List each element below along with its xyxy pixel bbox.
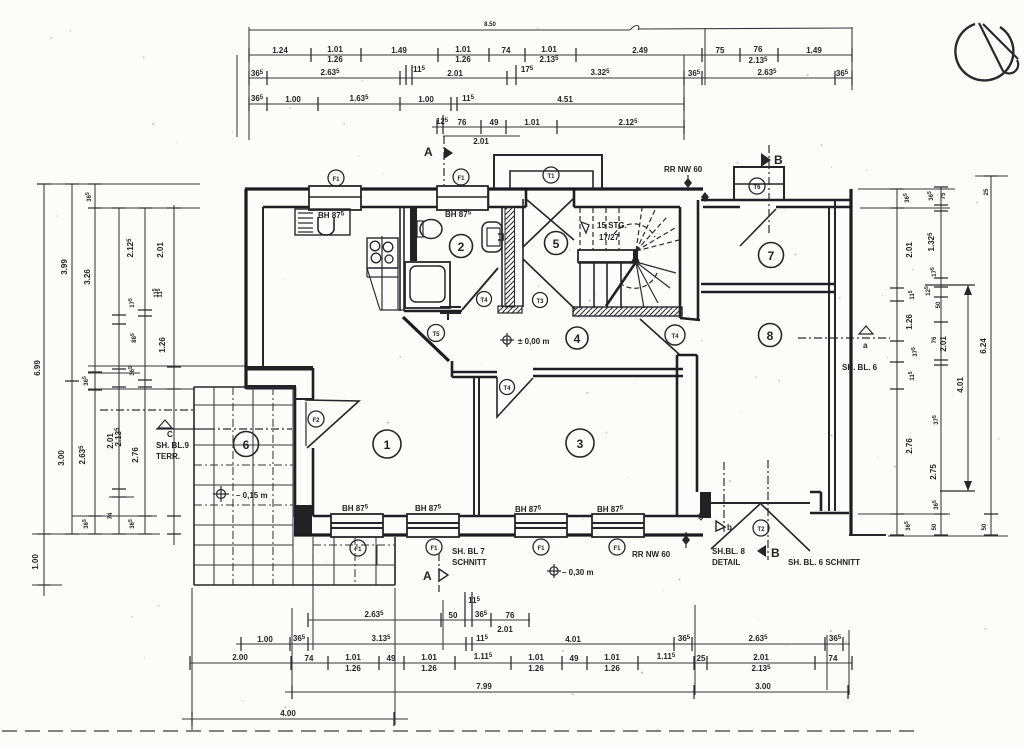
svg-text:3: 3 <box>577 437 584 451</box>
dim row J <box>285 682 850 699</box>
north arrow <box>955 23 1018 80</box>
left chain extension <box>152 205 181 545</box>
wall rooms 1/3 <box>474 378 479 516</box>
door T1 leaf <box>526 199 574 240</box>
svg-text:RR NW 60: RR NW 60 <box>664 165 703 174</box>
dim row D line <box>249 94 684 111</box>
svg-text:25: 25 <box>697 654 706 663</box>
svg-text:15 STG.: 15 STG. <box>597 221 627 230</box>
svg-text:4.01: 4.01 <box>956 377 965 393</box>
hall south wall right segment <box>533 369 683 376</box>
svg-text:SH. BL. 6: SH. BL. 6 <box>842 363 878 372</box>
room 4 <box>566 327 588 349</box>
hall south wall left segment <box>452 361 497 377</box>
entry door T2 leaves <box>711 504 810 551</box>
room 6 <box>234 432 259 457</box>
svg-text:2.00: 2.00 <box>232 653 248 662</box>
svg-text:1.01: 1.01 <box>421 653 437 662</box>
svg-text:3.26: 3.26 <box>83 269 92 285</box>
sink unit <box>295 209 350 235</box>
svg-text:7.99: 7.99 <box>476 682 492 691</box>
svg-text:1: 1 <box>384 438 391 452</box>
room 1 <box>373 430 401 458</box>
room 8 <box>759 324 782 347</box>
svg-text:T3: T3 <box>536 299 544 305</box>
svg-text:2.01: 2.01 <box>753 653 769 662</box>
window F1 top 1 <box>309 186 361 210</box>
toilet <box>417 220 442 239</box>
entry door T2 threshold <box>711 502 810 504</box>
svg-text:a: a <box>863 341 868 350</box>
svg-text:1.49: 1.49 <box>806 46 822 55</box>
bottom dashed ground line <box>2 730 920 732</box>
svg-text:1.01: 1.01 <box>327 45 343 54</box>
svg-text:BH 875: BH 875 <box>415 504 442 513</box>
svg-text:1.00: 1.00 <box>257 635 273 644</box>
svg-text:2.75: 2.75 <box>929 464 938 480</box>
svg-text:F1: F1 <box>430 546 438 552</box>
stove <box>367 238 398 268</box>
svg-text:5: 5 <box>553 237 560 251</box>
section marker A top <box>424 136 453 185</box>
svg-text:2.01: 2.01 <box>939 336 948 352</box>
svg-text:4.00: 4.00 <box>280 709 296 718</box>
left chain 3.99/3.00 <box>57 184 79 534</box>
bath south wall piece <box>440 307 461 320</box>
wall jog verticals F2 <box>295 368 313 517</box>
svg-text:TERR.: TERR. <box>156 452 180 461</box>
svg-text:25: 25 <box>984 188 990 195</box>
section marker B bottom <box>757 460 780 560</box>
door T4 hall-room8 leaf <box>640 319 680 355</box>
stair run diagonal <box>606 262 636 306</box>
svg-text:1.26: 1.26 <box>604 664 620 673</box>
svg-text:75: 75 <box>941 192 947 199</box>
bath floor bottom <box>404 310 462 313</box>
room8 west wall <box>677 355 697 516</box>
SW corner post <box>294 505 312 535</box>
marker RR NW 60 bottom <box>632 512 704 559</box>
svg-text:1.01: 1.01 <box>345 653 361 662</box>
svg-text:SH. BL.9: SH. BL.9 <box>156 441 189 450</box>
right chain 2 <box>924 187 948 535</box>
door T1 wall pieces <box>488 190 574 207</box>
svg-text:RR NW 60: RR NW 60 <box>632 550 671 559</box>
window F1 bottom 4 <box>592 514 644 537</box>
marker RR NW 60 top <box>664 165 709 202</box>
svg-text:2.01: 2.01 <box>447 69 463 78</box>
right 4.01 arrow line <box>925 285 975 491</box>
svg-text:1.01: 1.01 <box>524 118 540 127</box>
bottom exterior wall outer <box>294 533 703 536</box>
svg-text:BH 875: BH 875 <box>318 211 345 220</box>
window F1 top 2 <box>437 186 488 210</box>
section marker B top <box>761 145 783 235</box>
svg-text:76: 76 <box>458 118 467 127</box>
svg-text:1.01: 1.01 <box>604 653 620 662</box>
east inner wall <box>829 200 835 511</box>
svg-text:T5: T5 <box>432 332 440 338</box>
dim row C line <box>249 65 852 85</box>
svg-text:T6: T6 <box>753 185 761 191</box>
svg-text:4.51: 4.51 <box>557 95 573 104</box>
terrace border <box>194 387 395 585</box>
room7 top wall outer <box>701 199 852 202</box>
svg-text:A: A <box>424 145 433 159</box>
svg-text:2.49: 2.49 <box>632 46 648 55</box>
svg-text:50: 50 <box>982 523 988 530</box>
door T4 hall-room3 splay <box>497 377 533 417</box>
stair solid fan <box>636 262 676 308</box>
section marker a <box>798 326 890 350</box>
svg-text:3.00: 3.00 <box>755 682 771 691</box>
svg-text:1.01: 1.01 <box>455 45 471 54</box>
dim row A line 8.50 <box>249 22 852 30</box>
svg-text:1.00: 1.00 <box>285 95 301 104</box>
entry door T2 post west <box>700 492 711 518</box>
svg-text:76: 76 <box>754 45 763 54</box>
kitchen-bath black bar <box>410 207 417 261</box>
svg-text:1.26: 1.26 <box>528 664 544 673</box>
bathtub <box>405 262 450 308</box>
left chain 2.12/17/88/36/2.01/74 <box>106 208 138 534</box>
svg-text:C: C <box>167 430 173 439</box>
svg-text:± 0,00 m: ± 0,00 m <box>518 337 550 346</box>
left chain 6.99/1.00 <box>31 184 51 596</box>
bottom extension verticals <box>192 545 849 730</box>
room 2 <box>450 235 473 258</box>
svg-text:6.99: 6.99 <box>33 360 42 376</box>
section marker b <box>716 462 732 532</box>
top exterior wall outer <box>245 187 703 190</box>
kitchen-room1 diagonal edge <box>366 268 368 277</box>
bottom exterior wall inner <box>313 515 700 518</box>
svg-text:SCHNITT: SCHNITT <box>452 558 487 567</box>
svg-text:76: 76 <box>932 336 938 343</box>
svg-text:T4: T4 <box>480 298 488 304</box>
door T1 recess inner <box>510 171 593 189</box>
section marker C <box>156 420 292 439</box>
svg-text:50: 50 <box>932 523 938 530</box>
svg-text:1.01: 1.01 <box>528 653 544 662</box>
svg-text:1.26: 1.26 <box>327 55 343 64</box>
svg-text:49: 49 <box>570 654 579 663</box>
svg-text:F1: F1 <box>613 546 621 552</box>
stair newel post <box>633 250 638 262</box>
tag T2 <box>753 520 769 536</box>
tag T4 room8 <box>665 325 685 345</box>
svg-text:1.26: 1.26 <box>158 337 167 353</box>
stair walk-line arrow <box>581 222 589 233</box>
svg-text:2.76: 2.76 <box>131 447 140 463</box>
right chain 1 <box>890 189 919 535</box>
right chain 3 <box>979 176 998 535</box>
svg-text:F1: F1 <box>457 176 465 182</box>
stair bottom hatched strip <box>573 307 682 316</box>
svg-text:1.26: 1.26 <box>421 664 437 673</box>
stair upper flight dashed <box>580 208 619 250</box>
terrace grid horizontals dashed <box>194 465 395 545</box>
window F1 bottom 1 <box>331 514 383 537</box>
svg-text:2.01: 2.01 <box>905 242 914 258</box>
svg-text:SH. BL. 6 SCHNITT: SH. BL. 6 SCHNITT <box>788 558 860 567</box>
svg-text:1.01: 1.01 <box>541 45 557 54</box>
svg-text:2.76: 2.76 <box>905 438 914 454</box>
svg-text:2.01: 2.01 <box>497 625 513 634</box>
svg-text:– 0,15 m: – 0,15 m <box>236 491 268 500</box>
room 5 <box>545 232 568 255</box>
stair east wall <box>680 200 700 320</box>
hatched pier core <box>505 207 515 307</box>
svg-text:7: 7 <box>768 249 775 263</box>
tag T4 bath <box>477 292 492 307</box>
SW step wall bands <box>246 366 313 371</box>
svg-text:1.00: 1.00 <box>418 95 434 104</box>
svg-text:8.50: 8.50 <box>484 22 496 28</box>
tag F1 top2 <box>453 169 469 185</box>
svg-text:74: 74 <box>829 654 838 663</box>
svg-text:17/27: 17/27 <box>599 233 620 242</box>
door F2 leaf <box>305 400 359 448</box>
svg-text:T1: T1 <box>547 174 555 180</box>
window F1 bottom 3 <box>515 514 567 537</box>
svg-text:F1: F1 <box>332 177 340 183</box>
room 7 <box>759 243 784 268</box>
svg-text:2: 2 <box>458 240 465 254</box>
room5 splay upper <box>522 199 524 247</box>
svg-text:F1: F1 <box>537 546 545 552</box>
room5 splay lower (T3) <box>523 259 575 309</box>
svg-text:1.26: 1.26 <box>455 55 471 64</box>
right horizontal extensions <box>858 176 1008 536</box>
east exterior wall <box>849 189 852 535</box>
level mark 0.00 hall <box>500 333 550 347</box>
svg-text:BH 875: BH 875 <box>597 505 624 514</box>
svg-text:50: 50 <box>449 611 458 620</box>
dim row B line <box>249 45 852 65</box>
stair landing band <box>578 250 636 262</box>
svg-text:4: 4 <box>574 332 581 346</box>
svg-text:T2: T2 <box>757 527 765 533</box>
svg-text:76: 76 <box>506 611 515 620</box>
svg-text:SH. BL 7: SH. BL 7 <box>452 547 485 556</box>
section line C dash-dot left <box>100 409 195 411</box>
svg-text:1.24: 1.24 <box>272 46 288 55</box>
terrace grid horizontals solid <box>194 405 395 565</box>
kitchen-bath wall lines <box>400 207 404 311</box>
svg-text:SH.BL. 8: SH.BL. 8 <box>712 547 745 556</box>
tag T1 <box>543 167 559 183</box>
stair lower flight <box>578 262 636 264</box>
T5 diagonal wall <box>403 317 449 361</box>
hatched pier bottom cap <box>498 306 522 313</box>
door T1 recess outer <box>494 155 602 189</box>
svg-text:F2: F2 <box>312 418 320 424</box>
tag F2 <box>308 411 324 427</box>
svg-text:4.01: 4.01 <box>565 635 581 644</box>
washbasin <box>482 222 503 252</box>
east bottom step line <box>849 534 886 536</box>
svg-text:F1: F1 <box>354 547 362 553</box>
left exterior wall <box>244 189 247 389</box>
left chain 2.01/11/1.26/2.76 <box>128 208 167 534</box>
tag F1 bottom4 <box>609 539 625 555</box>
tag T3 <box>533 293 548 308</box>
svg-text:6.24: 6.24 <box>979 338 988 354</box>
svg-text:75: 75 <box>716 46 725 55</box>
tag T4 hall3 <box>500 380 515 395</box>
entry door T2 post east <box>810 492 849 513</box>
hatched pier walls <box>502 207 523 307</box>
svg-text:T4: T4 <box>503 386 511 392</box>
dim row G <box>308 592 530 634</box>
top exterior wall inner <box>263 206 850 209</box>
section marker A bottom <box>423 553 448 592</box>
window F1 bottom 2 <box>407 514 459 537</box>
stair dashed arc <box>614 224 655 237</box>
top extension verticals <box>237 27 852 140</box>
wall between room7 and room8 <box>701 284 835 292</box>
terrace grid verticals solid <box>214 387 376 585</box>
svg-text:49: 49 <box>490 118 499 127</box>
svg-text:74: 74 <box>502 46 511 55</box>
tag T5 <box>428 325 445 342</box>
svg-text:A: A <box>423 569 432 583</box>
svg-text:2.01: 2.01 <box>156 242 165 258</box>
svg-text:74: 74 <box>305 654 314 663</box>
svg-text:DETAIL: DETAIL <box>712 558 740 567</box>
svg-text:8: 8 <box>767 329 774 343</box>
svg-text:1.00: 1.00 <box>31 554 40 570</box>
dim row K 4.00 <box>182 709 408 726</box>
svg-text:BH 875: BH 875 <box>515 505 542 514</box>
svg-text:3.99: 3.99 <box>60 259 69 275</box>
tag F1 bottom2 <box>426 539 442 555</box>
left horizontal extension lines <box>32 184 246 585</box>
svg-text:T4: T4 <box>671 334 679 340</box>
left chain 36/3.26/36/2.63/36 <box>78 184 102 534</box>
dim row E line <box>432 115 685 146</box>
svg-text:B: B <box>771 546 780 560</box>
svg-text:1.26: 1.26 <box>905 314 914 330</box>
svg-text:– 0,30 m: – 0,30 m <box>562 568 594 577</box>
svg-text:6: 6 <box>243 438 250 452</box>
terrace grid verticals dashed <box>233 387 355 585</box>
svg-text:50: 50 <box>936 301 942 308</box>
kitchen counter <box>367 236 404 310</box>
svg-text:1.49: 1.49 <box>391 46 407 55</box>
level mark 0.15 terrace <box>213 486 268 502</box>
svg-text:1.26: 1.26 <box>345 664 361 673</box>
bath NE splay <box>462 268 498 310</box>
dim row I <box>190 652 852 673</box>
door F2 jog <box>295 398 313 400</box>
tag F1 bottom3 <box>533 539 549 555</box>
svg-text:B: B <box>774 153 783 167</box>
tag F1 bottom1 <box>350 540 366 556</box>
room 3 <box>566 429 594 457</box>
tag F1 top1 <box>328 170 344 186</box>
svg-text:BH 875: BH 875 <box>342 504 369 513</box>
tag T6 <box>749 178 765 194</box>
svg-text:BH 875: BH 875 <box>445 210 472 219</box>
stair dashed fan <box>636 208 679 251</box>
svg-text:2.01: 2.01 <box>473 137 489 146</box>
svg-text:3.00: 3.00 <box>57 450 66 466</box>
level mark 0.30 <box>547 564 594 578</box>
dim row H <box>236 634 850 651</box>
